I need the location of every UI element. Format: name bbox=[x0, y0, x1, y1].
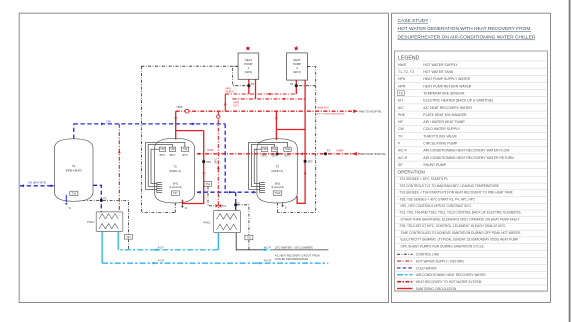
T2 sensor temperatures bbox=[160, 153, 188, 157]
arrow CW into tank T2 bottom bbox=[197, 191, 201, 194]
arrow SP1 down bbox=[202, 173, 205, 176]
control link TS7 spur under tank T2 bbox=[174, 195, 176, 212]
svg-text:OFF, SHUNT PUMPS RUN DURING SA: OFF, SHUNT PUMPS RUN DURING SANITATION C… bbox=[401, 244, 485, 248]
svg-text:COLD WATER SUPPLY: COLD WATER SUPPLY bbox=[423, 127, 461, 131]
svg-text:PHE: PHE bbox=[398, 113, 406, 117]
arrow CW header flow second bbox=[192, 123, 196, 126]
svg-text:LEGEND: LEGEND bbox=[398, 55, 420, 61]
svg-text:OTHER THAN SANITISING, ELEMENT: OTHER THAN SANITISING, ELEMENTS ONLY OPE… bbox=[401, 217, 520, 221]
svg-text:50°C: 50°C bbox=[233, 105, 239, 108]
svg-text:TS6: TS6 bbox=[262, 148, 267, 151]
arrow HWS to hospital bbox=[353, 109, 358, 113]
svg-text:TEMPERATURE SENSOR: TEMPERATURE SENSOR bbox=[423, 91, 465, 95]
svg-text:T1, T2, T3: T1, T2, T3 bbox=[398, 70, 414, 74]
arrow HWR from hospital bbox=[352, 152, 357, 156]
svg-text:AIR-CONDITIONING HEAT RECOVERY: AIR-CONDITIONING HEAT RECOVERY WATER FLO… bbox=[423, 149, 510, 153]
line samples bbox=[397, 253, 486, 291]
fan icon above HP1 bbox=[245, 46, 250, 51]
arrow HPR flow bbox=[281, 98, 284, 101]
wires TS6/TS11/TS12 to heater EH2 bbox=[249, 142, 288, 189]
svg-text:TS8: TS8 bbox=[170, 148, 175, 151]
sensor TS3 bbox=[124, 235, 132, 240]
legend box bbox=[395, 51, 548, 291]
wire shunt pump SP1 loop into tank T2 bottom bbox=[182, 131, 203, 204]
svg-text:HWS: HWS bbox=[398, 63, 407, 67]
T3 sensor temperatures bbox=[262, 153, 291, 157]
svg-text:HOT WATER SUPPLY / RETURN: HOT WATER SUPPLY / RETURN bbox=[416, 259, 465, 263]
svg-text:HPR: HPR bbox=[398, 84, 406, 88]
control link pump P2 to sensor TS3 and A/C pipe bbox=[103, 200, 129, 249]
svg-text:60°C: 60°C bbox=[182, 153, 188, 157]
svg-text:55°C: 55°C bbox=[170, 153, 176, 157]
svg-text:SP1: SP1 bbox=[206, 160, 211, 164]
svg-text:CW (80% WTS): CW (80% WTS) bbox=[28, 181, 47, 185]
control link TS10 spur under tank T3 bbox=[277, 195, 279, 212]
wire CW drop bbox=[224, 124, 226, 192]
svg-text:AIR-CONDITIONING HEAT RECOVERY: AIR-CONDITIONING HEAT RECOVERY WATER bbox=[416, 273, 486, 277]
svg-text:HEAT RECOVERY TO HOT WATER SYS: HEAT RECOVERY TO HOT WATER SYSTEM bbox=[416, 280, 482, 284]
control link TS4 to pump P2 bbox=[74, 196, 100, 201]
control link HP1 to pump P3 bbox=[233, 67, 247, 86]
pump P4 bbox=[295, 84, 298, 87]
svg-text:HWR: HWR bbox=[337, 148, 344, 152]
legend row separators bbox=[395, 61, 548, 292]
wire HPS to HWS connector bbox=[224, 94, 226, 111]
svg-text:EH1: EH1 bbox=[173, 182, 179, 186]
svg-text:TS2: TS2 bbox=[206, 183, 211, 186]
svg-text:ELECTRIC HEATER (BACK UP & SAN: ELECTRIC HEATER (BACK UP & SANITISE) bbox=[423, 99, 493, 103]
svg-text:TS10: TS10 bbox=[275, 192, 281, 195]
sensor TS5 bbox=[159, 147, 165, 151]
svg-text:CASE STUDY :: CASE STUDY : bbox=[398, 18, 432, 24]
svg-text:P2: P2 bbox=[103, 196, 107, 200]
arrow CW into tank T1 bbox=[51, 184, 55, 187]
drain of tank T1 bbox=[65, 203, 72, 210]
svg-text:TS12: TS12 bbox=[285, 148, 291, 151]
arrow T3 riser up bbox=[275, 115, 278, 118]
svg-text:P3: P3 bbox=[251, 82, 255, 86]
svg-text:A/C-R: A/C-R bbox=[398, 156, 408, 160]
arrow CW into tank T3 bottom bbox=[253, 191, 257, 194]
svg-text:CW: CW bbox=[398, 127, 404, 131]
wire tank T3 shunt branch bbox=[276, 129, 305, 131]
wire HPS header bbox=[225, 93, 296, 95]
svg-text:(3 elements): (3 elements) bbox=[271, 186, 284, 189]
operation rows bbox=[398, 177, 522, 248]
svg-text:EH2: EH2 bbox=[275, 182, 281, 186]
svg-text:AIR-CONDITIONING HEAT RECOVERY: AIR-CONDITIONING HEAT RECOVERY WATER RET… bbox=[423, 156, 514, 160]
sensor TS8 bbox=[169, 147, 175, 151]
arrow A/C-R flow near PHE2 bbox=[153, 262, 157, 265]
sensor TS2 bbox=[204, 182, 211, 187]
control link HP2 to pump P4 bbox=[298, 85, 316, 87]
svg-text:TS5: TS5 bbox=[160, 148, 165, 151]
svg-text:TS3: TS3 bbox=[126, 236, 131, 239]
svg-text:THROTTLING VALVE: THROTTLING VALVE bbox=[423, 134, 457, 138]
control link enclosure right edge and bottom segment under T3 bbox=[278, 67, 316, 213]
arrow CW bottom header right bbox=[229, 191, 233, 194]
svg-text:A/C: A/C bbox=[398, 106, 404, 110]
svg-text:HWS 60°C: HWS 60°C bbox=[318, 106, 330, 109]
drain of tank T3 bbox=[281, 202, 288, 209]
svg-text:- TS2 CONTROLS TV1 TO MAINTAIN: - TS2 CONTROLS TV1 TO MAINTAIN 58°C LEAV… bbox=[398, 184, 499, 188]
svg-text:SHUNT PUMP: SHUNT PUMP bbox=[423, 163, 446, 167]
arrow A/C link toward PHE2 bbox=[154, 248, 158, 251]
svg-text:A/C HEAT RECOVERY CIRCUIT FROM: A/C HEAT RECOVERY CIRCUIT FROM bbox=[275, 254, 320, 257]
svg-text:HPS: HPS bbox=[398, 77, 406, 81]
control link TS2 to valve TV1 bbox=[208, 186, 216, 206]
title CASE STUDY bbox=[398, 18, 536, 41]
svg-text:- TS1, TS5, TS6 AND TS10, TS11: - TS1, TS5, TS6 AND TS10, TS11, TS12 CON… bbox=[398, 211, 522, 215]
svg-text:- TS1 SENSES < 55°C STARTS P1: - TS1 SENSES < 55°C STARTS P1 bbox=[398, 177, 448, 181]
svg-text:A/C-R: A/C-R bbox=[158, 260, 165, 263]
svg-text:- TS3 SENSES < TS4 STARTS P2 F: - TS3 SENSES < TS4 STARTS P2 FOR HEAT RE… bbox=[398, 191, 514, 195]
svg-text:PHE2: PHE2 bbox=[87, 220, 95, 224]
pump P1 bbox=[324, 152, 327, 155]
pump SP2 bbox=[304, 160, 307, 163]
pump P3 bbox=[247, 84, 250, 87]
arrow PHE2 recovery up bbox=[118, 150, 121, 153]
wire shunt pump SP2 loop into tank T3 bottom bbox=[297, 80, 305, 203]
wire tank T1 to pump P2 and PHE2 bbox=[93, 185, 101, 212]
svg-text:P4: P4 bbox=[290, 82, 294, 86]
drain of tank T2 bbox=[181, 204, 188, 210]
pump P on PHE1 cold line bbox=[234, 203, 237, 206]
svg-text:CONTROL LINK: CONTROL LINK bbox=[416, 253, 440, 257]
sensor TS1 bbox=[245, 235, 253, 240]
wire tank T1 top riser bbox=[73, 124, 75, 139]
pump P2 bbox=[100, 199, 103, 202]
svg-text:DESUPERHEATER ON AIR-CONDITION: DESUPERHEATER ON AIR-CONDITIONING WATER … bbox=[398, 34, 536, 40]
arrow CW at border bbox=[20, 184, 24, 187]
svg-text:HEAT PUMP SUPPLY WATER: HEAT PUMP SUPPLY WATER bbox=[423, 77, 470, 81]
svg-text:(HP2): (HP2) bbox=[293, 70, 301, 74]
svg-text:OPERATION: OPERATION bbox=[398, 169, 425, 174]
svg-text:HWS: HWS bbox=[177, 106, 183, 109]
svg-text:A/C HEAT RECOVERY WATER: A/C HEAT RECOVERY WATER bbox=[423, 106, 472, 110]
svg-text:(HP1): (HP1) bbox=[245, 70, 253, 74]
throttling valve TV1 bbox=[215, 204, 221, 208]
wire heat recovery riser from PHE2 to CW header bbox=[118, 124, 120, 212]
arrow T2 riser up bbox=[174, 115, 177, 118]
svg-text:A/C-F: A/C-F bbox=[158, 246, 165, 249]
svg-text:AIR / WATER HEAT PUMP: AIR / WATER HEAT PUMP bbox=[423, 120, 465, 124]
svg-text:HOT WATER GENERATION WITH HEAT: HOT WATER GENERATION WITH HEAT RECOVERY … bbox=[398, 26, 531, 32]
junction circle on HWS line bbox=[185, 109, 189, 113]
control link pump P to sensor TS1 and A/C pipe bbox=[237, 205, 249, 250]
svg-text:HEAT PUMP RETURN WATER: HEAT PUMP RETURN WATER bbox=[423, 84, 471, 88]
svg-text:CHILLER DESUPERHEATER: CHILLER DESUPERHEATER bbox=[275, 258, 308, 261]
plate heat exchanger PHE1 bbox=[203, 211, 240, 233]
wire tank T2 top riser bbox=[175, 111, 177, 139]
svg-text:(65°C DURING SANITATION): (65°C DURING SANITATION) bbox=[317, 112, 345, 115]
fan icon above HP2 bbox=[294, 46, 299, 51]
wire HP1 supply pipe bbox=[248, 79, 250, 94]
sensor TS12 bbox=[284, 147, 291, 151]
svg-text:CIRCULATING PUMP: CIRCULATING PUMP bbox=[423, 142, 458, 146]
legend rows bbox=[397, 63, 514, 167]
svg-text:TS11: TS11 bbox=[272, 148, 278, 151]
arrow CW header flow bbox=[101, 123, 105, 126]
control link enclosure top edge bbox=[141, 65, 238, 67]
wire CW bottom header into T2 and T3 bbox=[197, 191, 257, 193]
wire HP2 supply pipe bbox=[295, 80, 297, 94]
svg-text:TS: TS bbox=[398, 91, 403, 95]
svg-text:TIME CONTROLLED TO ACHIEVE SAN: TIME CONTROLLED TO ACHIEVE SANITATION DU… bbox=[401, 231, 521, 235]
wire A/C into PHE2 right port bbox=[117, 231, 119, 249]
sensor TS10 bbox=[273, 191, 282, 195]
svg-text:SP2: SP2 bbox=[308, 160, 313, 164]
svg-text:TV: TV bbox=[398, 134, 403, 138]
svg-text:TS9: TS9 bbox=[183, 148, 188, 151]
svg-text:CW: CW bbox=[106, 120, 111, 124]
pump SP1 bbox=[202, 160, 205, 163]
svg-text:TS7: TS7 bbox=[173, 192, 178, 195]
svg-text:COLD WATER: COLD WATER bbox=[416, 266, 438, 270]
arrow A/C-F into PHE1 bbox=[262, 248, 266, 251]
wire A/C link PHE1 to PHE2 bbox=[118, 249, 218, 251]
svg-text:(MAIN 2): (MAIN 2) bbox=[271, 169, 283, 173]
wire tank T3 top riser bbox=[275, 111, 277, 140]
NOTES bbox=[395, 18, 548, 292]
wire A/C-R from PHE2 left port bbox=[101, 231, 103, 263]
svg-text:EH: EH bbox=[398, 99, 403, 103]
svg-text:T1: T1 bbox=[72, 164, 76, 168]
wire heat recovery riser to PHE1 via TV1 bbox=[217, 111, 219, 210]
page right edge line bbox=[569, 0, 571, 322]
svg-text:HOT WATER SUPPLY: HOT WATER SUPPLY bbox=[423, 63, 458, 67]
tank T2 (MAIN 1) bbox=[155, 138, 195, 203]
svg-text:HWS TO HOSPITAL: HWS TO HOSPITAL bbox=[359, 110, 382, 113]
svg-text:PHE1: PHE1 bbox=[203, 221, 211, 225]
svg-text:TS1: TS1 bbox=[247, 236, 252, 239]
arrow HPS-HWS connector up bbox=[224, 102, 227, 105]
wires TS5/TS8/TS9 to heater EH1 bbox=[146, 142, 185, 189]
junction on HWR at tank T3 bbox=[276, 152, 279, 155]
svg-text:HP: HP bbox=[398, 120, 403, 124]
sensor TS9 bbox=[181, 147, 188, 151]
wire PHE1 A/C-F corner piece bbox=[236, 233, 262, 250]
svg-text:HWR FROM HOSPITAL: HWR FROM HOSPITAL bbox=[359, 153, 387, 156]
svg-text:T3: T3 bbox=[275, 165, 279, 169]
heat pump HP2 bbox=[287, 53, 308, 80]
wire PHE1 A/C out down bbox=[217, 233, 219, 250]
wire tank T1 drain stub bbox=[65, 195, 67, 203]
svg-text:- TS9, TS12 SET AT 60°C, CONTR: - TS9, TS12 SET AT 60°C, CONTROL 1 ELEME… bbox=[398, 224, 507, 228]
wire cold feed to PHE1 bbox=[235, 192, 237, 210]
svg-text:58°C: 58°C bbox=[214, 158, 217, 164]
svg-text:A/C-F: A/C-F bbox=[398, 149, 407, 153]
svg-text:T2: T2 bbox=[173, 165, 177, 169]
svg-text:15°C (WINTER) ~ 30°C (SUMMER): 15°C (WINTER) ~ 30°C (SUMMER) bbox=[275, 247, 313, 250]
svg-text:HOT WATER TANK: HOT WATER TANK bbox=[423, 70, 454, 74]
svg-text:P1: P1 bbox=[327, 148, 331, 152]
svg-text:- TS5, TS6 SENSES < 40°C START: - TS5, TS6 SENSES < 40°C START P3, P4, H… bbox=[398, 197, 475, 201]
svg-text:(MAIN 1): (MAIN 1) bbox=[169, 169, 181, 173]
svg-text:P: P bbox=[238, 201, 240, 205]
wire HWS main line bbox=[176, 110, 353, 112]
tank T1 (PRE-HEAT) bbox=[55, 139, 94, 202]
arrow SP2 down bbox=[304, 173, 307, 176]
sensor TS6 bbox=[261, 147, 267, 151]
wire tank T2 shunt branch bbox=[176, 130, 204, 132]
wire A/C-F from chiller bbox=[262, 249, 273, 251]
control link enclosure left edge and bottom segment under T2 bbox=[141, 66, 175, 212]
arrow PHE1 feed bbox=[217, 166, 220, 169]
heater EH1 element symbol bbox=[157, 182, 162, 192]
plate heat exchanger PHE2 bbox=[87, 212, 123, 232]
wire HWR main line bbox=[197, 153, 361, 155]
schematic frame bbox=[19, 13, 388, 302]
arrow HWR into tank T3 bbox=[300, 153, 303, 156]
sensor TS7 bbox=[171, 191, 179, 195]
wire A/C-R return line bbox=[102, 262, 328, 264]
arrow HWR into tank T2 bbox=[197, 153, 200, 156]
svg-text:ELECTRICITY DEMAND. (TYPICAL: ELECTRICITY DEMAND. (TYPICAL SUNDAY 23:0… bbox=[401, 238, 519, 242]
wire HP1 return pipe bbox=[255, 79, 257, 99]
svg-text:SP: SP bbox=[398, 163, 403, 167]
svg-text:TV1: TV1 bbox=[221, 204, 226, 208]
arrow A/C-R return flow bbox=[259, 262, 263, 265]
wire A/C-F under label (dark) bbox=[273, 249, 329, 251]
notes column frame bbox=[392, 13, 551, 302]
junction circle on PHE1 riser bbox=[217, 115, 220, 118]
sensor TS11 bbox=[271, 147, 278, 151]
svg-text:PLATE HEAT EXCHANGER: PLATE HEAT EXCHANGER bbox=[423, 113, 467, 117]
svg-text:(3 elements): (3 elements) bbox=[169, 186, 182, 189]
wire HPR header bbox=[233, 98, 306, 100]
heater EH2 element symbol bbox=[260, 182, 265, 192]
svg-text:HP1, HP2 CONTROLS HPR AT CONST: HP1, HP2 CONTROLS HPR AT CONSTANT 50°C bbox=[401, 204, 473, 208]
svg-text:(PRE-HEAT): (PRE-HEAT) bbox=[66, 168, 82, 172]
arrow HPS flow bbox=[269, 93, 272, 96]
wire CW supply entry to tank T1 bbox=[20, 185, 55, 187]
svg-text:50/55°C: 50/55°C bbox=[225, 91, 234, 94]
svg-text:HWR: HWR bbox=[207, 149, 213, 152]
wire CW header to tanks bbox=[74, 123, 225, 125]
svg-text:A/C-R: A/C-R bbox=[264, 259, 272, 263]
svg-text:A/C-F: A/C-F bbox=[264, 246, 272, 250]
svg-text:SANITISING CIRCULATION: SANITISING CIRCULATION bbox=[416, 287, 457, 291]
svg-text:55°C: 55°C bbox=[160, 153, 166, 157]
heat pump HP1 bbox=[238, 53, 259, 79]
tank T3 (MAIN 2) bbox=[257, 139, 297, 203]
svg-text:TS4: TS4 bbox=[72, 192, 77, 195]
